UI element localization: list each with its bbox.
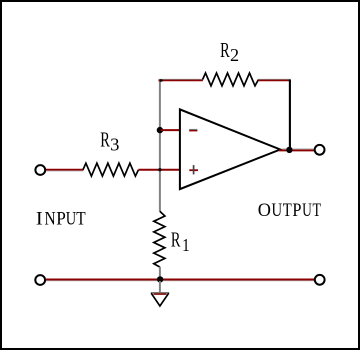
svg-text:T: T bbox=[76, 209, 86, 230]
wire R3 to noninverting input bbox=[139, 169, 180, 171]
node output junction bbox=[286, 147, 292, 153]
output terminal bbox=[315, 145, 325, 155]
label R2 bbox=[220, 38, 239, 65]
svg-text:T: T bbox=[283, 200, 292, 221]
resistor R2 bbox=[203, 73, 259, 86]
resistor R1 bbox=[154, 211, 165, 267]
wire feedback vertical to output node bbox=[289, 80, 291, 149]
svg-text:U: U bbox=[272, 200, 283, 221]
wire R1 to bottom rail bbox=[159, 267, 161, 279]
wire rail to ground bbox=[159, 281, 161, 293]
label OUTPUT bbox=[258, 200, 322, 221]
wire node to inverting input bbox=[161, 129, 179, 131]
svg-text:R: R bbox=[171, 227, 181, 251]
wire input to R3 bbox=[46, 170, 84, 171]
label INPUT bbox=[36, 209, 86, 230]
wire vertical branch (feedback/input net) bbox=[159, 80, 161, 212]
node inverting input junction bbox=[157, 127, 163, 133]
node ground junction bbox=[157, 276, 163, 282]
svg-text:R: R bbox=[220, 38, 230, 62]
svg-text:P: P bbox=[56, 209, 66, 230]
svg-text:O: O bbox=[258, 200, 271, 221]
svg-text:T: T bbox=[313, 200, 322, 221]
svg-text:U: U bbox=[302, 200, 312, 221]
node crossing junction bbox=[158, 168, 161, 171]
wire top feedback left segment bbox=[159, 79, 203, 81]
wire top feedback right segment bbox=[258, 79, 290, 80]
svg-text:P: P bbox=[292, 200, 301, 221]
bottom-left terminal bbox=[35, 275, 45, 285]
op-amp U1 bbox=[180, 109, 280, 189]
svg-text:2: 2 bbox=[230, 45, 239, 65]
svg-text:U: U bbox=[66, 209, 77, 230]
bottom-right terminal bbox=[315, 275, 325, 285]
input terminal bbox=[35, 165, 45, 175]
ground bbox=[151, 293, 169, 306]
wire op-amp output bbox=[279, 149, 315, 151]
label R3 bbox=[100, 127, 119, 154]
svg-text:3: 3 bbox=[110, 135, 119, 155]
svg-text:I: I bbox=[36, 209, 43, 230]
resistor R3 bbox=[83, 163, 139, 176]
label R1 bbox=[171, 227, 190, 255]
svg-text:N: N bbox=[45, 209, 56, 230]
svg-text:1: 1 bbox=[182, 235, 190, 255]
wire bottom rail bbox=[46, 280, 314, 281]
svg-text:R: R bbox=[100, 127, 110, 151]
